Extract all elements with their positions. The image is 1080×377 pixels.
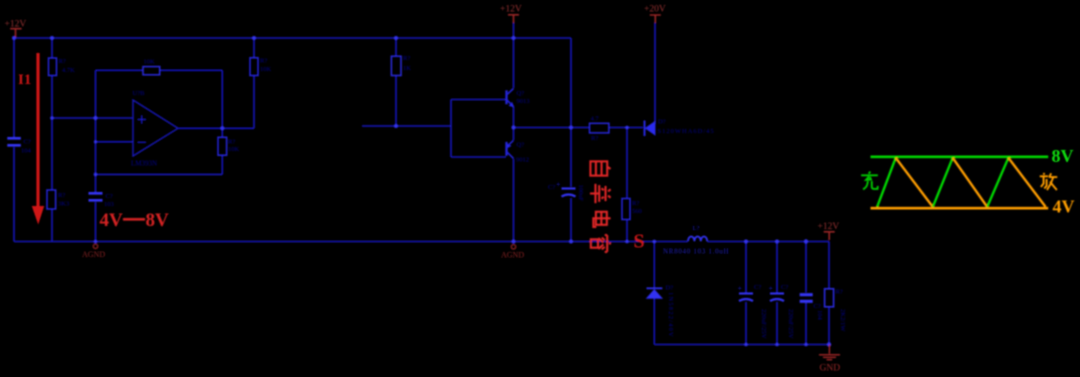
power port AGND center [511,245,515,249]
wire Q1 collector to rail [513,38,515,88]
svg-text:9013: 9013 [517,98,530,105]
wire base resistor R4 bottom lead [395,76,397,127]
wire RC vertical to RF2 [221,155,223,174]
svg-text:D?: D? [658,119,666,126]
label R4 designator and value [403,55,411,72]
svg-text:10K: 10K [260,66,272,73]
wire op-amp plus input [52,117,133,119]
current arrow I1 [32,53,44,225]
wire RF2 top lead [221,128,223,137]
wire hysteresis feedback vertical left [95,70,97,192]
svg-text:R?: R? [260,58,267,65]
wire hysteresis feedback top left segment [96,69,144,71]
op-amp U1 LM393 [133,100,178,156]
label C3 designator value plus [738,284,768,339]
label D1 designator and part [658,119,715,136]
wire output cap C4 leads [776,242,778,345]
transistor Q1 NPN 9013 [507,89,514,107]
label R6 designator and value [632,200,642,215]
svg-text:Q?: Q? [517,90,525,97]
wire bottom main rail right of inductor [707,241,829,243]
wire bootstrap cap bottom lead [570,198,572,242]
power port GND bottom right [819,345,840,360]
waveform discharge slope 3 [1008,158,1045,207]
power port AGND left [93,244,97,248]
label U1 designator and part [131,90,157,168]
wire +12V port stem to rail [513,22,515,38]
svg-text:220uF/25V: 220uF/25V [787,309,794,339]
wire Q1 base stub [451,99,506,101]
svg-text:+12V: +12V [5,19,27,29]
wire left rail lower segment [13,147,15,242]
label 充 charge character [861,172,878,190]
label C4 designator value plus [769,284,795,339]
svg-text:D?: D? [666,285,674,292]
svg-text:L?: L? [693,225,700,232]
svg-text:2K2/1W: 2K2/1W [839,309,846,332]
wire output cap C3 leads [745,242,747,345]
wire divider middle segment [51,76,53,191]
label 自 (bootstrap text char 1) [590,161,610,175]
power port +20V [650,15,661,23]
wire R6 bottom lead [626,220,628,242]
svg-text:C?: C? [24,139,31,146]
wire bottom main rail left of inductor [14,241,688,243]
wire load resistor R7 leads [828,242,830,345]
svg-text:R?: R? [59,58,66,65]
svg-text:1K: 1K [403,65,411,72]
wire hysteresis feedback vertical right [221,70,223,128]
wire pull-up R3 top lead [253,38,255,58]
wire op-amp minus input [96,141,134,143]
svg-text:104: 104 [816,310,823,321]
wire bootstrap vertical upper [570,38,572,187]
wire hysteresis feedback top right segment [160,69,223,71]
resistor RF1 hysteresis [143,67,160,75]
label R2 designator and value [58,192,69,208]
svg-text:9012: 9012 [516,157,529,164]
capacitor C2 oscillator timing [89,193,103,200]
svg-text:+: + [738,284,743,293]
wire base split vertical [450,100,452,158]
svg-text:R?: R? [403,55,410,62]
svg-text:220uF/25V: 220uF/25V [760,309,767,339]
wire +20V drop [654,23,656,125]
svg-text:4.7: 4.7 [591,116,600,123]
svg-text:R?: R? [228,139,235,146]
svg-text:C?: C? [754,284,761,291]
waveform bottom rail 4V line [871,207,1049,210]
wire bottom right ground rail [654,344,829,346]
resistor R5 bootstrap series [590,123,609,133]
waveform charge slope 3 [987,158,1008,207]
wire top +12V rail [14,37,571,39]
waveform charge slope 1 [877,158,896,207]
capacitor C6 bootstrap (polarized) [562,189,576,197]
capacitor C5 output ceramic [800,295,813,302]
label Q2 designator and part [516,142,529,164]
wire R5 to diode D1 [609,127,643,129]
resistor RF2 to minus input [218,137,227,155]
diode D1 bootstrap charge [645,121,656,137]
resistor R3 pull-up [250,58,258,76]
node minus input junction [94,140,97,143]
label Q1 designator and part [517,90,530,105]
capacitor C4 output electrolytic 2 [770,294,784,302]
svg-text:C?: C? [548,184,555,191]
wire R6 top lead [626,128,628,199]
wire pull-up R3 bottom lead [253,76,255,129]
label 电 (bootstrap text char 3) [593,212,610,227]
label R3 designator and value [260,58,272,74]
svg-text:100uF: 100uF [577,185,584,202]
svg-text:C?: C? [106,193,113,200]
resistor R1 upper divider [49,58,57,76]
resistor R6 below bootstrap node [622,199,630,220]
svg-text:+12V: +12V [818,222,840,232]
power port +12V above Q1 [508,15,519,23]
inductor L1 [688,236,707,241]
label C6 bootstrap designator value plus [548,180,584,202]
svg-text:104: 104 [21,148,32,155]
svg-text:S: S [634,231,645,253]
svg-text:4.7K: 4.7K [62,67,75,74]
wire base resistor R4 top lead [395,38,397,56]
waveform top rail 8V line [871,156,1049,159]
transistor Q2 PNP 9012 [507,140,514,158]
power port +12V top-left [10,29,21,37]
label 容 (bootstrap text char 4) [591,235,611,252]
label 举 (bootstrap text char 2) [590,184,611,203]
svg-text:S120WHA6D/45: S120WHA6D/45 [658,128,715,135]
wire divider R1 top lead [51,38,53,58]
svg-text:AGND: AGND [82,250,105,259]
waveform discharge slope 2 [953,158,988,207]
svg-text:R?: R? [591,135,598,142]
wire Q1 emitter down [513,107,515,128]
wire divider R2 bottom lead [51,209,53,242]
svg-text:C?: C? [781,284,788,291]
wire Q2 emitter up [513,128,515,141]
label C2 designator and value [104,193,114,208]
svg-text:4V: 4V [100,210,124,231]
svg-text:R?: R? [58,192,65,199]
label 放 discharge character [1040,173,1057,190]
svg-text:U?B: U?B [133,90,146,97]
label RF2 designator and value [228,139,240,154]
svg-text:1N5822/40V: 1N5822/40V [667,292,674,338]
svg-text:+: + [769,284,774,293]
wire RC horizontal [96,173,223,175]
wire op-amp output [178,127,254,129]
svg-text:Q?: Q? [517,142,525,149]
svg-text:C?: C? [814,303,821,310]
wire left rail upper segment [13,38,15,137]
resistor R2 lower divider [47,190,56,209]
svg-text:103: 103 [104,201,114,208]
waveform charge slope 2 [933,158,953,207]
svg-text:R?: R? [632,200,639,207]
resistor R7 output load [825,289,834,307]
svg-text:GND: GND [820,364,841,374]
svg-text:10K: 10K [144,59,156,66]
svg-text:3K3: 3K3 [58,201,69,208]
label R5 designator and value [591,116,600,143]
wire oscillator cap C2 bottom lead [95,202,97,242]
svg-text:LM393N: LM393N [131,160,157,168]
diode D2 freewheel [647,288,663,298]
svg-text:+20V: +20V [644,5,666,15]
resistor R4 base drive [391,56,401,75]
wire freewheel diode D2 bottom lead [653,298,655,344]
svg-text:10K: 10K [228,146,240,153]
label C1 designator and value [21,139,32,155]
label C5 designator and value [814,303,824,321]
svg-text:560: 560 [632,208,642,215]
wire Q2 base stub [451,156,506,158]
wire emitter output row [514,127,590,129]
capacitor C1 input filter [7,138,20,145]
svg-text:NR8040 103 1.0uH: NR8040 103 1.0uH [663,248,729,256]
label R1 designator and value [59,58,76,74]
svg-text:R?: R? [836,289,843,296]
power port +12V output right [824,232,835,240]
label R7 designator and value [836,289,847,333]
wire base drive horizontal [362,125,451,127]
capacitor C3 output electrolytic 1 [739,294,753,302]
wire freewheel diode D2 top lead [653,242,655,288]
label L1 designator and part [663,225,729,256]
svg-text:8V: 8V [146,210,170,231]
svg-text:4V: 4V [1053,197,1075,217]
svg-text:8V: 8V [1052,146,1074,166]
waveform discharge slope 1 [896,158,933,207]
wire Q2 collector to bottom rail [513,159,515,242]
svg-text:+12V: +12V [500,5,522,15]
wire output cap C5 leads [805,242,807,345]
svg-text:I1: I1 [18,72,31,88]
svg-text:+: + [556,180,561,189]
label D2 designator and part [666,285,675,338]
svg-text:AGND: AGND [501,251,524,260]
